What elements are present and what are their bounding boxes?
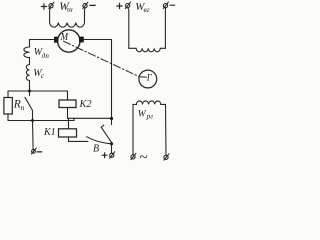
svg-text:с: с	[41, 71, 45, 80]
wire W_rg left lead	[132, 104, 134, 154]
svg-text:В: В	[93, 144, 99, 155]
terminal +T3 plus sign	[117, 3, 122, 8]
wire W_sh right lead	[84, 8, 87, 23]
wire bus1 horizontal	[8, 90, 68, 92]
winding W_vg coil (generator field)	[129, 48, 166, 52]
svg-text:ш: ш	[67, 4, 73, 13]
terminal T5 minus sign	[37, 151, 42, 153]
terminal T8 clamp circle	[164, 155, 168, 159]
terminal T4 clamp circle	[163, 4, 167, 8]
winding W_sh coil (shunt field)	[50, 23, 85, 28]
svg-text:п: п	[21, 103, 25, 112]
terminal T7 slash	[131, 153, 136, 159]
wire W_c down to bus1	[29, 81, 31, 92]
svg-text:W: W	[138, 109, 147, 119]
wire resistor bottom to bus2	[7, 114, 9, 121]
terminal +T1 plus sign	[41, 4, 46, 9]
wire armature left to branch corner	[30, 40, 55, 48]
switch V fixed stub	[111, 119, 113, 125]
motor left brush	[54, 37, 58, 43]
wire down to relay K1	[68, 118, 70, 129]
wire armature right and main vertical	[84, 40, 112, 119]
wire K1 bottom L	[69, 137, 89, 141]
wire W_vg right lead	[164, 8, 166, 48]
wire bus1 down to resistor	[7, 91, 9, 98]
terminal T5 slash	[32, 148, 37, 154]
relay coil K2 body	[59, 100, 76, 108]
winding W_c coil (series field)	[26, 65, 29, 81]
resistor Rp body	[4, 98, 12, 115]
wire to negative terminal	[32, 121, 35, 150]
wire bus1 down to relay K2	[67, 91, 69, 100]
terminal T5 clamp circle	[32, 149, 36, 153]
terminal T4 slash	[163, 2, 168, 8]
svg-text:дп: дп	[42, 52, 50, 60]
terminal T7 clamp circle	[131, 155, 135, 159]
terminal T3 slash	[125, 2, 130, 8]
node junction main vertical / K2 wire	[110, 117, 113, 120]
terminal T6 plus sign	[102, 153, 107, 158]
wire W_rg right lead	[165, 104, 168, 155]
wire W_sh left lead	[50, 8, 51, 23]
wire to plus terminal	[111, 144, 113, 153]
svg-text:~: ~	[139, 150, 147, 166]
svg-text:К2: К2	[79, 99, 92, 110]
svg-text:вг: вг	[144, 5, 150, 14]
terminal T6 slash	[110, 152, 115, 158]
wire between coils	[29, 58, 31, 65]
node junction bus2	[31, 119, 34, 122]
terminal T4 minus sign	[170, 4, 175, 6]
shaft stub inside tachogenerator	[140, 76, 146, 78]
terminal T3 clamp circle	[126, 4, 130, 8]
svg-text:К1: К1	[43, 127, 56, 138]
node junction switch bottom	[110, 142, 113, 145]
wire K2 bottom to node	[68, 108, 112, 119]
contact K1 blade (shorts Rp)	[25, 97, 33, 110]
wire bus2 horizontal	[8, 118, 74, 120]
relay coil K1 body	[59, 129, 77, 137]
motor M armature circle	[58, 30, 80, 52]
terminal T2 clamp circle	[83, 4, 87, 8]
svg-text:Г: Г	[146, 72, 153, 82]
terminal T1 slash	[49, 2, 54, 8]
motor right brush	[79, 37, 84, 43]
terminal T2 minus sign	[90, 4, 95, 6]
tachogenerator circle	[139, 70, 157, 88]
switch V blade from K1 wire	[87, 137, 112, 144]
wire contact to bus2	[32, 111, 34, 121]
wire W_vg left lead	[127, 8, 130, 48]
winding W_rg coil (regulator winding)	[133, 101, 166, 105]
node junction bus1/Wc	[28, 90, 31, 93]
terminal T1 clamp circle	[49, 4, 53, 8]
winding W_dp coil (commutating poles)	[24, 47, 30, 58]
terminal T6 clamp circle	[110, 153, 114, 157]
terminal T2 slash	[83, 2, 88, 8]
terminal T8 slash	[164, 154, 169, 160]
shaft dash-dot line motor to tachogenerator	[64, 41, 140, 76]
contact K1 upper stub	[29, 91, 31, 96]
svg-text:рг: рг	[146, 113, 154, 121]
switch V blade to stub	[101, 125, 111, 143]
